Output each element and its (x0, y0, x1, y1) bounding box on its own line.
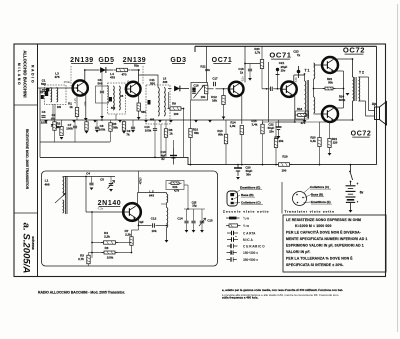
L5 trimmer blob (148, 100, 151, 105)
wire signal to R15 (263, 122, 269, 125)
svg-text:C5: C5 (100, 178, 104, 182)
svg-text:OC72: OC72 (351, 131, 372, 138)
wire secondary into speaker (369, 110, 375, 112)
ground bus point 5 (144, 120, 148, 123)
svg-text:350÷500 v: 350÷500 v (243, 258, 258, 262)
wire R7 connect (132, 229, 139, 231)
wire R21 top (329, 122, 331, 139)
wire collector node line (245, 63, 262, 65)
resistor R6 (102, 251, 118, 254)
svg-text:C16: C16 (193, 84, 199, 88)
svg-text:sulla frequenza a 460 kc/s.: sulla frequenza a 460 kc/s. (222, 295, 259, 299)
wire R14 to bus (241, 135, 243, 165)
ground R12 (222, 117, 226, 120)
coil L4 primary (113, 86, 114, 110)
resistor R5a mid (122, 122, 125, 131)
speaker Ap (375, 102, 387, 126)
ground bus point 1 (44, 120, 48, 123)
IF transformer L3 box (45, 85, 67, 105)
svg-text:Emettitore (E): Emettitore (E) (240, 186, 260, 190)
coil L3 primary (51, 88, 52, 103)
svg-text:16k: 16k (212, 99, 217, 103)
svg-text:RICEVITORE MOD. 2005 TRANSIST: RICEVITORE MOD. 2005 TRANSISTOR (25, 129, 29, 190)
svg-text:100k: 100k (99, 128, 106, 132)
coil L2 lower winding (167, 208, 168, 228)
label OC71 first (212, 57, 233, 64)
capacitor C14 (184, 221, 188, 223)
svg-text:Base (B): Base (B) (241, 193, 254, 197)
svg-text:15v: 15v (281, 69, 286, 73)
junction dot 5 (125, 88, 127, 90)
wire L2 top to R2b box (166, 193, 168, 195)
svg-text:5µF: 5µF (139, 221, 144, 224)
wire R1 top (76, 96, 78, 108)
IF transformer L4 box (108, 83, 126, 114)
svg-text:100k: 100k (145, 129, 152, 133)
ground C9 (131, 130, 135, 133)
wire R17 top (275, 122, 277, 139)
junction dot 6 (183, 108, 185, 110)
svg-text:T 1: T 1 (305, 69, 310, 73)
wire T2 primary bottom (352, 101, 354, 120)
wire switch to battery (350, 182, 352, 185)
capacitor C25 (191, 221, 195, 223)
svg-text:PER LE CAPACITÀ DOVE NON È: PER LE CAPACITÀ DOVE NON È DIVERSA- (286, 230, 361, 235)
wire R5a top (123, 120, 125, 122)
wire T2 collector to L5 primary (139, 75, 159, 88)
trimmer C15 (199, 218, 206, 226)
svg-text:R6: R6 (105, 246, 109, 250)
svg-text:100k: 100k (107, 256, 114, 260)
ground bus point 3 (93, 120, 97, 123)
wire secondary top (359, 76, 369, 78)
wire C4 drop (91, 177, 93, 183)
svg-text:476: 476 (54, 75, 59, 79)
resistor R8 (164, 129, 167, 138)
svg-text:120: 120 (333, 141, 338, 145)
wire signal vertical (268, 62, 270, 122)
ground C20 (236, 177, 240, 180)
electrolytic C21 (276, 68, 280, 89)
capacitor input trim (40, 91, 43, 93)
wire T6 emitter up (335, 107, 344, 109)
trimmer C2 block (45, 91, 48, 96)
capacitor C1 (42, 90, 46, 92)
wire R9 to mid bus (183, 109, 185, 158)
wire secondary top down (368, 77, 370, 111)
legend electrolytic 350-500v (227, 257, 237, 261)
wire T1 collector up (84, 70, 86, 81)
wire T3 collector up (240, 64, 242, 83)
screen dashed divider 2 (142, 66, 144, 84)
ground C8 (95, 130, 99, 133)
svg-text:643: 643 (149, 194, 154, 198)
resistor R9 (168, 107, 184, 110)
svg-text:K=1000 M = 1000 000: K=1000 M = 1000 000 (295, 224, 332, 228)
wire T7 collector up (137, 193, 139, 205)
svg-text:50k: 50k (328, 81, 333, 85)
wire R7 bottom join (131, 246, 133, 253)
junction dot 24 (85, 176, 87, 178)
ground L2 bottom (165, 240, 169, 243)
ground R3a (85, 131, 89, 134)
wire left input vertical (39, 88, 41, 157)
junction dot 26 (173, 157, 175, 159)
coil L4 secondary (119, 86, 120, 110)
resistor R1 (75, 108, 78, 117)
svg-text:466: 466 (150, 118, 155, 122)
coil L2 upper winding (167, 194, 168, 203)
resistor R11 (205, 85, 208, 94)
wire R4 node left v (91, 212, 93, 258)
svg-text:1k: 1k (69, 105, 73, 109)
svg-text:1,8k: 1,8k (230, 124, 236, 128)
legend ceramico capacitor (227, 244, 238, 248)
capacitor C4 (89, 183, 93, 185)
ground C22 (277, 136, 281, 139)
wire T1 primary bottom to bus (304, 117, 306, 120)
underline legend emettitore (311, 203, 332, 205)
ground bus point 7 (169, 120, 173, 123)
wire R8 bottom (165, 137, 167, 157)
junction dot 29 (190, 164, 192, 166)
wire L3 box bottom to bus (54, 104, 56, 120)
svg-text:160: 160 (57, 106, 62, 109)
resistor R20 (318, 138, 321, 147)
wire R3a top (86, 120, 88, 122)
sidebar divider 1 (14, 104, 38, 106)
resistor R4 (101, 241, 118, 244)
oscillator section box (42, 171, 218, 266)
wire R2b drop vertical (187, 185, 189, 209)
junction dot 28 (154, 157, 156, 159)
leader line legend B (305, 195, 312, 198)
legend divider vertical (281, 182, 283, 214)
wire C5 drop (110, 177, 112, 183)
svg-text:-0,9v: -0,9v (84, 101, 87, 107)
leader line emettitore (234, 190, 240, 194)
capacitor C8 (95, 127, 99, 129)
underline legend collettore (310, 188, 331, 190)
wire R6 right (116, 252, 132, 254)
junction dot 8 (244, 63, 246, 65)
wire R20 bottom (319, 147, 321, 165)
wire C15 bottom (201, 224, 203, 231)
junction dot 12 (304, 73, 306, 75)
legend carta capacitor (227, 231, 238, 235)
wire L4 box bottom to bus (115, 114, 117, 120)
svg-text:6v: 6v (360, 191, 364, 195)
wire T2 emitter down (138, 96, 140, 113)
svg-text:Base (B): Base (B) (311, 193, 323, 197)
battery B1 (346, 186, 356, 203)
label OC71 second (269, 51, 291, 60)
wire C13 top (173, 140, 175, 148)
legend quarter watt resistor (226, 217, 240, 220)
ground battery (349, 210, 353, 213)
volume control box (191, 83, 208, 101)
resistor R2 (60, 127, 63, 136)
leader line legend C (304, 188, 311, 194)
switch S1 (349, 171, 353, 183)
wire mid bus drop 1 (39, 141, 41, 143)
splitter winding upper (314, 63, 315, 79)
wire R22 right (333, 88, 344, 90)
ground R21 (328, 153, 332, 156)
legend electrolytic 150-300v (227, 250, 237, 255)
resistor R16 (295, 114, 309, 117)
junction dot 14 (343, 88, 345, 90)
coil L5 primary (158, 88, 159, 117)
svg-text:Ap: Ap (372, 102, 377, 106)
electrolytic C13 (170, 148, 177, 165)
resistor 470 AGC (114, 68, 130, 71)
wire C18 top (249, 64, 251, 69)
svg-text:20k: 20k (279, 139, 284, 143)
wire emitter down to R7 (138, 224, 140, 231)
svg-text:498: 498 (44, 183, 49, 187)
resistor R19 (276, 163, 292, 167)
wire L5 box bottom to bus (160, 124, 162, 157)
coil L1 ferrite antenna upper (63, 177, 64, 196)
wire input stub (38, 87, 41, 89)
label 2N139 first (70, 57, 94, 64)
junction dot 30 (241, 164, 243, 166)
svg-text:50k: 50k (194, 131, 199, 135)
svg-text:VALORI IN pF.: VALORI IN pF. (286, 250, 310, 254)
transistor OC72 lower (322, 106, 338, 122)
wire T5 collector up bend (334, 58, 336, 61)
svg-text:1k: 1k (169, 132, 173, 136)
svg-text:+: + (357, 182, 359, 186)
junction dot 1 (84, 69, 86, 71)
svg-text:R A D I O: R A D I O (31, 65, 35, 83)
resistor R3 (87, 255, 90, 264)
wire R13 bottom (225, 144, 227, 165)
input blob 2 (41, 95, 44, 99)
wire R6 left (92, 252, 104, 254)
leader line legend E (304, 201, 312, 204)
wire L2 bottom down (166, 228, 168, 241)
resistor R14 (240, 126, 243, 135)
transistor 2N139 first (73, 80, 88, 95)
capacitor C3 (41, 116, 45, 118)
wire top signal line y70 (85, 69, 100, 71)
ground C15 (200, 230, 204, 233)
label OC72 upper (343, 46, 365, 55)
svg-text:56k: 56k (113, 126, 118, 130)
svg-text:e, adatto per la gamma onde me: e, adatto per la gamma onde medie, con r… (222, 288, 343, 292)
svg-text:GD5: GD5 (98, 57, 114, 64)
wire inner right vertical (376, 46, 378, 164)
junction dot 23 (166, 225, 168, 227)
wire R4 right (116, 242, 132, 244)
wire base bias node (320, 121, 330, 123)
junction dot 22 (138, 225, 140, 227)
junction dot 15 (352, 58, 354, 60)
transistor OC71 second (281, 82, 296, 97)
transistor 2N139 second (126, 82, 141, 97)
trimmer C5 (108, 181, 115, 189)
wire emitter link vertical (343, 71, 345, 108)
wire T4 collector up (293, 75, 295, 82)
coil L3 secondary (57, 88, 58, 103)
leader line base (234, 195, 240, 199)
wire R3 bottom (88, 264, 90, 266)
svg-text:2,2k: 2,2k (104, 235, 110, 239)
junction dot 13 (313, 88, 315, 90)
wire R5 to bus (138, 112, 140, 121)
svg-text:LE RESISTENZE SONO ESPRESSE: LE RESISTENZE SONO ESPRESSE IN OHM (286, 218, 361, 222)
svg-text:C3: C3 (42, 110, 46, 114)
transformer T1 core line 2 (308, 80, 310, 118)
wire T3 collector up to node (244, 64, 246, 83)
legend mica capacitor (227, 237, 238, 242)
wire R22 left (314, 88, 326, 90)
underline legend base (311, 196, 324, 198)
wire C9 top (132, 120, 134, 127)
svg-text:476: 476 (110, 76, 115, 80)
legend transistor circle (293, 192, 307, 206)
svg-text:2N139: 2N139 (123, 57, 147, 64)
capacitor C6 (100, 91, 104, 93)
svg-text:Collettore (C): Collettore (C) (241, 201, 261, 205)
junction dot 31 (262, 164, 264, 166)
transistor OC71 first (229, 82, 244, 97)
wire C14 top (186, 209, 188, 221)
wire R2a top (54, 120, 56, 122)
wire C10 bottom (154, 131, 156, 157)
wire T5 collector to T2 primary top (335, 58, 353, 60)
svg-text:OC71: OC71 (212, 57, 233, 64)
wire C25 bottom (193, 224, 195, 231)
R16 box (296, 111, 309, 119)
ground R2 (60, 137, 64, 140)
underline collettore (241, 204, 263, 206)
wire C2 drop (52, 104, 54, 118)
svg-text:560: 560 (141, 110, 146, 114)
wire battery drop from bus (350, 165, 352, 171)
wire C15 top (201, 209, 203, 221)
electrolytic C20 (234, 165, 242, 177)
junction dot 11 (294, 121, 296, 123)
electrolytic C22 (276, 120, 282, 136)
svg-text:( 5,2v: ( 5,2v (139, 178, 143, 185)
svg-text:3,4k: 3,4k (252, 123, 258, 127)
wire secondary bottom into speaker (366, 115, 375, 117)
wire C17 to T3 base (216, 88, 229, 90)
wire GD5 to R470 (106, 69, 114, 71)
ground R5a (122, 131, 126, 134)
wire mid bus (40, 141, 110, 143)
svg-text:7k: 7k (126, 133, 130, 137)
wire secondary bottom (359, 100, 366, 102)
svg-text:PER LA TOLLERANZA % DOVE N: PER LA TOLLERANZA % DOVE NON È (286, 256, 353, 261)
notes box border (283, 215, 386, 272)
resistor R7 (130, 237, 133, 246)
transformer T1 primary winding (305, 81, 306, 117)
svg-text:C4: C4 (86, 172, 90, 176)
svg-text:R2a: R2a (134, 64, 139, 68)
wire C20 to T4 base (273, 88, 281, 90)
junction dot 7 (223, 88, 225, 90)
coil L1 ferrite antenna lower (63, 200, 64, 213)
antenna coil core 2 (66, 176, 68, 214)
svg-text:4,7k: 4,7k (174, 188, 180, 192)
resistor R23 (260, 60, 263, 69)
wire R21 bottom (329, 148, 331, 154)
junction dot 16 (352, 119, 354, 121)
capacitor C18 (248, 69, 252, 71)
junction dot 27 (101, 119, 103, 121)
svg-text:15v: 15v (269, 130, 274, 134)
wire R2 drop (61, 120, 63, 127)
svg-text:100: 100 (174, 112, 179, 116)
junction dot 17 (350, 164, 352, 166)
wire collector feed from rail (244, 46, 246, 63)
capacitor C12 (153, 223, 155, 227)
wire T4 emitter down (294, 96, 296, 122)
wire R9 left up (168, 92, 170, 109)
wire C25 top (193, 209, 195, 221)
wire splitter top to T5 base (314, 64, 323, 66)
wire R4 left (92, 242, 103, 244)
wire box to C17 (208, 88, 214, 90)
svg-text:Zoccolo visto sotto: Zoccolo visto sotto (223, 210, 270, 214)
svg-text:2,7k: 2,7k (78, 257, 84, 261)
wire C6 to bus (101, 94, 103, 120)
svg-text:M I L A N O: M I L A N O (17, 63, 21, 85)
svg-text:60k: 60k (218, 133, 223, 137)
wire T2 collector up (138, 70, 140, 82)
svg-text:C E R AM IC O: C E R AM IC O (243, 245, 265, 249)
wire T2 primary top (352, 59, 354, 77)
sidebar divider 2 (14, 212, 38, 214)
wire T4 collector to T1 primary (294, 74, 305, 76)
wire C6 drop (101, 70, 103, 90)
svg-text:7µ: 7µ (297, 53, 301, 57)
ground T1 primary (303, 120, 307, 123)
transformer T2 core line 2 (355, 77, 357, 101)
svg-text:R9: R9 (172, 102, 176, 106)
svg-text:10µ: 10µ (192, 204, 197, 208)
svg-text:100: 100 (282, 169, 287, 173)
wire T1 primary top (304, 75, 306, 81)
resistor R10 (189, 129, 192, 138)
L3 extra blob (46, 88, 49, 91)
wire L5 out (168, 88, 172, 90)
ground C14 (185, 230, 189, 233)
svg-text:ESPRIMONO VALORI IN µF, SUPE: ESPRIMONO VALORI IN µF, SUPERIORI AD 1 (286, 244, 364, 248)
transformer T2 primary winding (353, 77, 354, 101)
svg-text:150÷300 v: 150÷300 v (243, 251, 258, 255)
resistor R22 (323, 87, 336, 90)
resistor R21 (328, 139, 331, 148)
wire B+ rail drop at left end (194, 46, 196, 52)
wire GD3 to volume box (180, 88, 189, 90)
svg-text:C A RTA: C A RTA (243, 232, 256, 236)
svg-text:C12: C12 (151, 217, 157, 221)
svg-text:R16: R16 (297, 107, 303, 111)
coil L5 secondary (164, 88, 165, 117)
wire R1 bottom (76, 117, 78, 121)
wire R2b right drop (184, 184, 188, 186)
leader line collettore (234, 202, 240, 205)
resistor R13 (224, 134, 227, 144)
svg-text:GD3: GD3 (170, 57, 186, 64)
capacitor C7 (73, 126, 77, 128)
wire R10 top (190, 100, 192, 129)
